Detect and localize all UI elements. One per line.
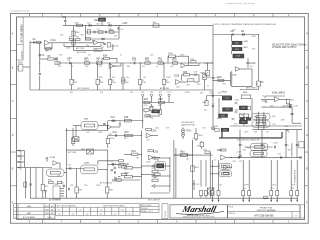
svg-text:+C39: +C39 [273, 142, 279, 144]
svg-text:1M: 1M [158, 58, 161, 60]
svg-text:1u: 1u [247, 117, 249, 119]
svg-text:ALL TPS DC VALUES: ALL TPS DC VALUES [57, 205, 76, 208]
svg-text:C15: C15 [132, 59, 137, 61]
svg-text:IC4B LM833: IC4B LM833 [272, 92, 285, 94]
svg-text:SW2: SW2 [217, 118, 223, 120]
svg-text:10K: 10K [145, 58, 149, 60]
svg-text:1M: 1M [218, 93, 221, 95]
svg-text:FIRST USED: FIRST USED [142, 205, 152, 207]
svg-text:100K: 100K [263, 149, 268, 151]
svg-text:R31: R31 [150, 117, 153, 119]
svg-text:C22: C22 [86, 132, 89, 134]
svg-text:AYT-CSB: AYT-CSB [160, 87, 169, 90]
svg-text:10K: 10K [172, 58, 176, 60]
svg-text:D4: D4 [250, 66, 252, 68]
svg-text:2K2: 2K2 [203, 128, 206, 130]
svg-text:10/9/02: 10/9/02 [44, 206, 49, 208]
svg-text:100n: 100n [272, 184, 276, 186]
svg-text:CN3: CN3 [54, 184, 59, 186]
svg-text:C22: C22 [84, 185, 87, 187]
svg-text:RE1: RE1 [95, 20, 100, 22]
svg-text:100n: 100n [235, 110, 239, 112]
svg-text:TP1: TP1 [141, 92, 144, 94]
svg-text:TP4: TP4 [167, 92, 170, 94]
svg-text:470R: 470R [109, 30, 114, 32]
svg-text:CSB-GIB: CSB-GIB [165, 211, 167, 218]
svg-text:4K7: 4K7 [288, 149, 291, 151]
svg-text:4K7: 4K7 [112, 77, 115, 79]
svg-text:R12: R12 [84, 59, 89, 61]
svg-text:1n: 1n [156, 66, 158, 68]
svg-text:1M: 1M [219, 184, 222, 186]
svg-text:C31: C31 [113, 132, 118, 134]
svg-text:22n: 22n [204, 109, 207, 111]
svg-text:9A21: 9A21 [27, 212, 31, 215]
svg-text:R39: R39 [79, 190, 82, 192]
svg-text:DIAGNOSE HOB: DIAGNOSE HOB [181, 124, 196, 127]
svg-text:R14: R14 [103, 55, 108, 57]
svg-text:2K2: 2K2 [186, 158, 189, 160]
svg-text:100n: 100n [176, 87, 180, 89]
svg-text:2K2: 2K2 [58, 66, 61, 68]
svg-text:+C20: +C20 [250, 63, 256, 65]
svg-text:c:\aw\drg\csb3_fnt.dgn: c:\aw\drg\csb3_fnt.dgn [10, 9, 30, 12]
svg-text:100K: 100K [99, 77, 104, 79]
svg-text:C22: C22 [99, 66, 102, 68]
svg-text:CIRCUIT DIAGRAM: CIRCUIT DIAGRAM [257, 209, 276, 212]
svg-text:C14: C14 [111, 117, 116, 119]
svg-text:R31: R31 [272, 116, 275, 118]
svg-text:10K: 10K [96, 58, 100, 60]
svg-text:VR3A: VR3A [221, 91, 227, 94]
svg-text:100n: 100n [186, 129, 190, 131]
svg-text:AYT-CSB: AYT-CSB [77, 51, 86, 54]
svg-text:10K: 10K [142, 82, 146, 84]
svg-text:R16: R16 [124, 117, 129, 119]
svg-text:10K: 10K [112, 82, 116, 84]
svg-text:2K2: 2K2 [197, 84, 200, 86]
svg-text:R41: R41 [125, 132, 130, 134]
svg-text:R17: R17 [144, 99, 149, 101]
svg-text:DRG No: DRG No [229, 213, 235, 215]
svg-text:22n: 22n [210, 195, 213, 197]
svg-text:1/6/02: 1/6/02 [45, 210, 49, 212]
svg-text:R48: R48 [109, 190, 112, 192]
svg-text:R55: R55 [203, 149, 206, 151]
svg-text:DoE.No.: DoE.No. [21, 50, 23, 58]
svg-text:IC2B: IC2B [174, 76, 180, 78]
svg-text:10K: 10K [100, 82, 104, 84]
svg-text:+C27: +C27 [293, 105, 299, 107]
svg-text:R31: R31 [85, 66, 88, 68]
svg-text:4K7: 4K7 [70, 92, 73, 94]
svg-text:R44: R44 [132, 151, 137, 153]
svg-text:470R: 470R [235, 99, 240, 101]
svg-text:1n: 1n [262, 95, 264, 97]
svg-text:1M: 1M [143, 77, 146, 79]
svg-text:D4: D4 [142, 66, 144, 68]
svg-text:220K: 220K [112, 66, 117, 68]
svg-text:C34: C34 [62, 17, 67, 19]
svg-text:AYT-CSB-GIB-A50: AYT-CSB-GIB-A50 [254, 215, 274, 218]
svg-text:AYT-CSB: AYT-CSB [76, 47, 85, 50]
svg-text:AYT-CSB 0V: AYT-CSB 0V [78, 87, 90, 90]
svg-text:C16: C16 [158, 59, 163, 61]
svg-text:4K7: 4K7 [81, 35, 84, 37]
svg-text:220K: 220K [281, 120, 286, 122]
svg-text:3/4/01: 3/4/01 [45, 213, 49, 215]
svg-text:R46: R46 [125, 164, 130, 166]
svg-text:1: 1 [15, 217, 16, 219]
svg-text:9B60: 9B60 [27, 206, 31, 208]
svg-text:220K: 220K [244, 132, 249, 134]
svg-text:2K2: 2K2 [234, 123, 237, 125]
svg-text:1M: 1M [136, 158, 139, 160]
svg-text:IC1A: IC1A [51, 39, 57, 42]
svg-text:470R: 470R [146, 162, 151, 164]
svg-text:CN2: CN2 [18, 63, 23, 65]
svg-text:C12: C12 [110, 161, 113, 163]
svg-text:AYT-CSB-GIB-RC: AYT-CSB-GIB-RC [20, 24, 23, 43]
svg-text:10K: 10K [73, 82, 77, 84]
svg-text:1M: 1M [55, 58, 58, 60]
svg-text:IC5A: IC5A [151, 129, 157, 132]
svg-text:22n: 22n [86, 45, 89, 47]
svg-text:TO MAIN PCB: TO MAIN PCB [293, 169, 296, 183]
svg-text:TP2: TP2 [150, 92, 153, 94]
svg-text:SET LEVEL: SET LEVEL [246, 88, 258, 90]
svg-text:100K: 100K [66, 48, 71, 50]
svg-text:ECO NUMBER: ECO NUMBER [23, 217, 36, 219]
svg-text:T10: T10 [121, 210, 124, 212]
svg-text:SHEET 1 OF 1: SHEET 1 OF 1 [142, 211, 153, 213]
svg-text:T7: T7 [100, 210, 102, 212]
svg-text:100K: 100K [180, 55, 185, 57]
svg-text:C21: C21 [210, 92, 215, 94]
svg-text:R23: R23 [183, 72, 188, 74]
svg-text:1M: 1M [130, 92, 133, 94]
svg-text:TO/FROM MAIN PCB: TO/FROM MAIN PCB [19, 150, 22, 170]
svg-text:R31: R31 [223, 83, 226, 85]
svg-text:AT MAIN AMP OUTPUT: AT MAIN AMP OUTPUT [272, 46, 297, 49]
svg-text:D4: D4 [266, 132, 268, 134]
svg-text:R47: R47 [125, 173, 130, 175]
svg-text:D4: D4 [119, 124, 121, 126]
svg-text:22n: 22n [100, 92, 103, 94]
svg-text:C22: C22 [239, 161, 242, 163]
svg-text:R18: R18 [159, 99, 164, 101]
svg-text:AYT-CSB 0V: AYT-CSB 0V [148, 198, 160, 201]
svg-text:4K7: 4K7 [200, 93, 203, 95]
svg-text:100n: 100n [96, 24, 100, 26]
svg-text:1u: 1u [207, 86, 209, 88]
svg-text:NOTE 1. UNLESS OTHERWISE STAT: NOTE 1. UNLESS OTHERWISE STATED ALL RESI… [213, 23, 276, 26]
svg-text:C22: C22 [232, 30, 235, 32]
svg-text:R54: R54 [152, 168, 155, 170]
svg-text:C11: C11 [68, 164, 71, 166]
svg-text:HT1: HT1 [95, 50, 99, 52]
svg-text:1u: 1u [71, 66, 73, 68]
svg-text:TP3: TP3 [158, 92, 161, 94]
svg-text:T4: T4 [79, 210, 81, 212]
svg-text:IC3B: IC3B [50, 157, 55, 159]
svg-text:T1: T1 [58, 210, 60, 212]
svg-text:470R: 470R [244, 184, 249, 186]
svg-text:AYT-CSB: AYT-CSB [68, 151, 77, 154]
svg-text:4K7: 4K7 [124, 138, 127, 140]
svg-text:+C37: +C37 [236, 151, 242, 153]
svg-text:D4: D4 [88, 55, 90, 57]
svg-text:R16: R16 [172, 59, 177, 61]
svg-text:22n: 22n [126, 77, 129, 79]
svg-text:Marshall: Marshall [180, 204, 218, 214]
svg-text:220K: 220K [98, 132, 103, 134]
svg-text:1u: 1u [62, 185, 64, 187]
svg-text:1u: 1u [214, 160, 216, 162]
svg-text:IC3A: IC3A [111, 119, 116, 122]
svg-text:c:\aw\drg\csb3_fnt_rb_csb3_iss: c:\aw\drg\csb3_fnt_rb_csb3_iss4.dgn [225, 2, 255, 5]
svg-text:C13: C13 [112, 164, 117, 166]
svg-text:220K: 220K [96, 185, 101, 187]
svg-text:R20: R20 [154, 109, 157, 111]
svg-text:R38A: R38A [84, 161, 89, 164]
svg-text:1u: 1u [145, 112, 147, 114]
svg-text:R31: R31 [233, 161, 236, 163]
svg-text:1n: 1n [48, 176, 50, 178]
svg-text:10K: 10K [132, 58, 136, 60]
svg-text:100n: 100n [155, 128, 159, 130]
svg-text:THROUGH PCB PLATED: THROUGH PCB PLATED [103, 205, 125, 208]
svg-text:C32: C32 [112, 180, 117, 182]
svg-text:220K: 220K [252, 36, 257, 38]
svg-text:100K: 100K [283, 105, 288, 107]
svg-text:C41: C41 [278, 154, 281, 156]
svg-text:2K2: 2K2 [158, 105, 161, 107]
svg-text:RL1: RL1 [45, 186, 48, 188]
svg-text:R31: R31 [70, 185, 73, 187]
svg-text:C22: C22 [272, 124, 275, 126]
svg-text:1n: 1n [288, 132, 290, 134]
svg-text:IC4A: IC4A [232, 73, 237, 76]
svg-text:22n: 22n [147, 139, 150, 141]
svg-text:R15: R15 [145, 59, 150, 61]
svg-text:CSB100: CSB100 [142, 208, 148, 210]
svg-text:10K: 10K [125, 82, 129, 84]
svg-text:VR2: VR2 [201, 73, 206, 75]
svg-text:C40: C40 [196, 184, 199, 186]
svg-text:470R: 470R [166, 77, 171, 79]
svg-text:100K: 100K [110, 138, 115, 140]
svg-text:SW1: SW1 [244, 41, 250, 43]
svg-text:10K: 10K [166, 82, 170, 84]
svg-text:1n: 1n [120, 55, 122, 57]
svg-text:+15V: +15V [122, 23, 128, 25]
svg-text:R24: R24 [218, 77, 223, 79]
svg-text:AYT-CSB 0V: AYT-CSB 0V [100, 182, 112, 185]
svg-text:470R: 470R [185, 92, 190, 94]
svg-text:22K: 22K [84, 58, 88, 60]
svg-text:1M: 1M [101, 47, 104, 49]
